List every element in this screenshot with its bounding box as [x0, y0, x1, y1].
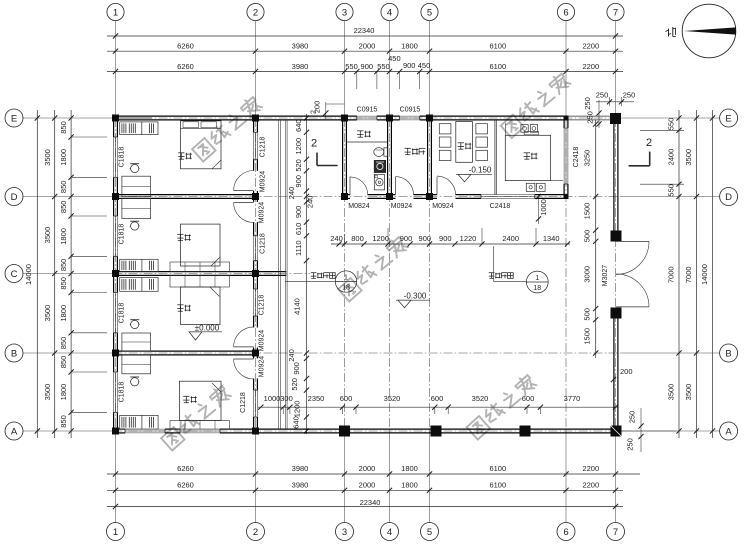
svg-text:4: 4	[387, 7, 392, 18]
dim 250/250 bottom right column 7A	[622, 408, 677, 452]
svg-text:450: 450	[418, 61, 431, 70]
axis bubble A right	[720, 422, 738, 440]
door label M3027	[602, 265, 609, 287]
door label M0924 dining bottom	[432, 203, 454, 210]
svg-text:1220: 1220	[460, 234, 477, 243]
axis bubble 7 top	[607, 3, 624, 20]
svg-text:850: 850	[59, 201, 68, 214]
window label C2418 kitchen right	[573, 147, 580, 168]
storage label 储物间	[405, 148, 426, 154]
dining table	[456, 122, 473, 163]
horizontal axis line C	[23, 273, 310, 275]
svg-text:6100: 6100	[489, 42, 506, 51]
door label M0924 room4	[259, 356, 266, 378]
svg-text:250: 250	[583, 97, 592, 110]
door label M0924 room1	[260, 171, 267, 193]
watermark 图纸之家 centre	[338, 235, 409, 301]
svg-text:C1218: C1218	[260, 137, 267, 158]
window label C1818 left wall	[119, 382, 126, 403]
left dimension line 850/1800 chain	[59, 110, 107, 438]
column 3/E	[341, 115, 348, 122]
bottom dimension line 22340	[107, 498, 623, 509]
svg-text:7000: 7000	[684, 266, 693, 283]
dining elevation -0.150	[456, 165, 492, 182]
column 7 wall lower	[611, 308, 622, 319]
svg-text:2200: 2200	[582, 481, 599, 490]
svg-text:2400: 2400	[667, 149, 676, 166]
dim 200 above E wall near axis 3	[313, 101, 345, 119]
svg-text:6: 6	[563, 7, 568, 18]
dining label 餐厅	[458, 143, 472, 149]
column 7/E	[610, 113, 621, 124]
svg-text:1: 1	[113, 527, 118, 538]
left dimension line 14000	[24, 110, 40, 438]
axis bubble 5 top	[421, 3, 438, 20]
door M0924 room2	[234, 203, 254, 223]
svg-text:M0924: M0924	[391, 203, 413, 210]
room4 desk	[122, 355, 151, 374]
walkway edge lines	[279, 120, 287, 429]
window label C1818 left wall	[119, 147, 126, 168]
column 2/C	[252, 270, 259, 277]
window label C1818 left wall	[119, 224, 126, 245]
column 2/B	[252, 350, 259, 357]
WC basin	[374, 160, 385, 172]
dining chair left 1	[439, 124, 451, 134]
svg-text:240: 240	[306, 196, 315, 209]
room4 chair	[130, 377, 140, 386]
svg-text:C1818: C1818	[119, 224, 126, 245]
steps index circle 1/18 left	[335, 271, 356, 292]
dorm wall axis C	[114, 272, 258, 276]
door label M0924 room3	[259, 330, 266, 352]
svg-text:C: C	[11, 269, 18, 280]
svg-text:900: 900	[361, 62, 374, 71]
svg-text:850: 850	[59, 356, 68, 369]
svg-text:250: 250	[586, 111, 595, 124]
wall axis D top block	[343, 195, 568, 199]
svg-text:2: 2	[311, 110, 318, 114]
window label C1818 left wall	[119, 303, 126, 324]
room2 bench row	[170, 262, 230, 272]
svg-text:600: 600	[431, 394, 444, 403]
svg-text:6100: 6100	[489, 481, 506, 490]
right dimension line 14000	[700, 110, 715, 438]
room3 chair	[130, 320, 140, 329]
kitchen sink	[526, 183, 545, 191]
svg-text:6100: 6100	[489, 464, 506, 473]
section mark 2 left	[311, 138, 338, 166]
svg-text:3: 3	[342, 7, 347, 18]
svg-text:18: 18	[342, 285, 350, 292]
svg-text:2: 2	[253, 527, 258, 538]
wall axis 3 (WC left)	[343, 118, 347, 197]
room3 headboard band	[170, 275, 230, 287]
column 5/E	[426, 115, 433, 122]
door M0924 storage	[396, 177, 414, 195]
svg-text:6260: 6260	[177, 464, 194, 473]
wall axis 5	[428, 118, 432, 197]
svg-text:240: 240	[287, 187, 296, 200]
svg-text:3500: 3500	[684, 384, 693, 401]
room3 wardrobe	[120, 278, 158, 292]
svg-text:550: 550	[345, 62, 358, 71]
column 1/B	[112, 350, 119, 357]
dining chair right 3	[476, 150, 488, 160]
svg-text:E: E	[725, 113, 731, 124]
svg-text:C2418: C2418	[490, 203, 511, 210]
svg-text:D: D	[11, 192, 18, 203]
room2 label 宿舍	[177, 234, 191, 240]
svg-text:550: 550	[667, 118, 676, 131]
top dimension line 22340	[107, 26, 623, 38]
vertical axis line 6	[565, 21, 567, 523]
inner vertical dimension chain right wall	[583, 120, 599, 358]
svg-text:1800: 1800	[401, 464, 418, 473]
svg-text:6260: 6260	[177, 62, 194, 71]
svg-text:3500: 3500	[43, 305, 52, 322]
svg-text:3770: 3770	[564, 394, 581, 403]
door label M0824	[348, 203, 370, 210]
steps index circle 1/18 right	[526, 271, 548, 293]
top dimension line subdivisions	[107, 54, 623, 89]
vertical axis line 1	[115, 21, 117, 523]
svg-text:240: 240	[287, 349, 296, 362]
column 2/D	[252, 193, 259, 200]
svg-text:A: A	[11, 426, 18, 437]
room3 label 宿舍	[177, 305, 191, 311]
svg-text:2200: 2200	[582, 42, 599, 51]
svg-text:6260: 6260	[177, 481, 194, 490]
axis bubble 7 bottom	[607, 523, 625, 541]
axis bubble 4 bottom	[381, 523, 399, 541]
svg-text:14000: 14000	[700, 264, 709, 285]
axis bubble 2 bottom	[247, 523, 265, 541]
svg-text:2400: 2400	[502, 234, 519, 243]
svg-text:3500: 3500	[667, 384, 676, 401]
axis bubble 2 top	[247, 3, 264, 20]
svg-text:900: 900	[294, 206, 303, 219]
kitchen right wall axis 6 with window C2418	[564, 116, 568, 198]
dim 250/250 top right of column 7E	[596, 91, 636, 107]
column 3/A	[339, 426, 350, 437]
svg-text:6: 6	[563, 527, 568, 538]
room1 wardrobe	[120, 122, 158, 135]
svg-text:850: 850	[59, 415, 68, 428]
svg-text:520: 520	[290, 378, 299, 391]
svg-text:22340: 22340	[360, 498, 381, 507]
axis bubble 3 top	[336, 3, 353, 20]
svg-text:2200: 2200	[582, 464, 599, 473]
svg-text:3500: 3500	[43, 227, 52, 244]
door M0924 room3	[234, 327, 254, 347]
room2 wardrobe	[120, 259, 158, 271]
svg-text:500: 500	[583, 230, 592, 243]
axis bubble 1 top	[107, 3, 124, 20]
steps label 室外台阶 right	[489, 246, 527, 281]
svg-text:D: D	[725, 192, 732, 203]
axis bubble 6 top	[557, 3, 574, 20]
window label C0915 WC	[357, 107, 378, 114]
door M0924 room1	[234, 171, 254, 191]
svg-text:850: 850	[59, 121, 68, 134]
svg-text:640: 640	[292, 416, 301, 429]
svg-text:1800: 1800	[59, 149, 68, 166]
inner horizontal dimension chain terrace	[258, 394, 618, 414]
axis bubble D left	[5, 188, 23, 206]
svg-text:M0924: M0924	[432, 203, 454, 210]
room4 wardrobe	[120, 415, 158, 429]
svg-text:900: 900	[294, 175, 303, 188]
svg-text:5: 5	[427, 7, 432, 18]
room1 chair	[130, 164, 140, 173]
svg-text:1200: 1200	[372, 234, 389, 243]
svg-text:1200: 1200	[294, 138, 303, 155]
axis bubble A left	[5, 422, 23, 440]
svg-text:1: 1	[113, 7, 118, 18]
inner vertical dimension chain at walkway	[287, 114, 315, 434]
room2 bed	[181, 224, 221, 266]
svg-text:1800: 1800	[59, 384, 68, 401]
svg-text:C1818: C1818	[119, 147, 126, 168]
column 5/D	[426, 193, 433, 200]
svg-text:640: 640	[294, 119, 303, 132]
vertical axis line 4	[389, 21, 391, 523]
dining chair right 1	[476, 124, 488, 134]
column 1/A	[112, 428, 119, 435]
svg-text:300: 300	[280, 394, 293, 403]
window label C1218 room4	[240, 392, 247, 413]
room3 elevation ±0.000	[189, 323, 222, 340]
svg-text:5: 5	[427, 527, 432, 538]
svg-text:22340: 22340	[354, 26, 375, 35]
room4 bench row	[170, 421, 230, 430]
column 3/D	[341, 193, 348, 200]
door M0924 room4	[234, 359, 254, 379]
terrace elevation -0.300	[396, 291, 430, 307]
svg-text:C1218: C1218	[259, 295, 266, 316]
svg-text:1800: 1800	[401, 42, 418, 51]
svg-text:850: 850	[59, 259, 68, 272]
svg-text:C1218: C1218	[260, 233, 267, 254]
door M3027 leaf lower	[616, 274, 649, 307]
axis bubble B right	[720, 344, 738, 362]
room3 bed	[181, 287, 221, 324]
column 2/E	[252, 115, 259, 122]
column 1/D	[112, 193, 119, 200]
svg-text:610: 610	[294, 223, 303, 236]
svg-text:C1218: C1218	[240, 392, 247, 413]
axis bubble 3 bottom	[336, 523, 354, 541]
svg-text:600: 600	[340, 394, 353, 403]
svg-text:900: 900	[403, 61, 416, 70]
door label M0924 storage bottom	[391, 203, 413, 210]
svg-text:M0924: M0924	[259, 356, 266, 378]
svg-text:C1818: C1818	[119, 382, 126, 403]
room1 bed	[181, 121, 222, 169]
svg-text:4: 4	[387, 527, 392, 538]
svg-text:3980: 3980	[292, 42, 309, 51]
svg-text:3500: 3500	[43, 149, 52, 166]
svg-text:250: 250	[623, 91, 636, 100]
svg-text:2: 2	[253, 7, 258, 18]
svg-text:2000: 2000	[359, 42, 376, 51]
svg-text:7: 7	[613, 527, 618, 538]
window label C1218 room1	[260, 137, 267, 158]
svg-text:1000: 1000	[264, 394, 281, 403]
svg-text:1000: 1000	[539, 199, 548, 216]
svg-text:3520: 3520	[384, 394, 401, 403]
svg-text:M0924: M0924	[260, 171, 267, 193]
dorm right wall axis 2	[254, 116, 258, 433]
vertical axis line 5	[429, 21, 431, 523]
room3 desk	[122, 333, 151, 351]
right dimension chain 3500/7000/3500	[684, 110, 699, 438]
bottom dimension line bays 2	[107, 481, 623, 493]
svg-text:B: B	[11, 348, 17, 359]
steps label 室外台阶 left	[285, 273, 335, 282]
axis bubble 5 bottom	[421, 523, 439, 541]
room2 chair	[130, 221, 140, 230]
wall E extension to column 7	[568, 116, 610, 120]
horizontal axis line B	[23, 352, 720, 354]
svg-text:14000: 14000	[24, 264, 33, 285]
room4 label 宿舍	[183, 396, 197, 402]
watermark 图纸之家 top-middle	[500, 72, 571, 138]
svg-text:6100: 6100	[489, 62, 506, 71]
window label C0915 storage	[400, 107, 421, 114]
svg-text:1: 1	[535, 275, 539, 282]
svg-text:A: A	[725, 426, 732, 437]
svg-text:-0.300: -0.300	[404, 291, 427, 300]
svg-text:900: 900	[400, 234, 413, 243]
horizontal axis line E	[23, 117, 720, 119]
svg-text:1800: 1800	[59, 305, 68, 322]
svg-text:250: 250	[628, 411, 637, 424]
WC label 公卫	[357, 131, 371, 137]
svg-text:900: 900	[419, 234, 432, 243]
svg-text:240: 240	[330, 234, 343, 243]
column 1/C	[112, 270, 119, 277]
kitchen counter	[505, 123, 563, 181]
svg-text:850: 850	[59, 337, 68, 350]
svg-text:M0924: M0924	[259, 330, 266, 352]
door label M0924 room2	[259, 202, 266, 224]
svg-text:850: 850	[59, 181, 68, 194]
inner horizontal dimension chain under rooms	[330, 228, 570, 247]
column A-wall mid right	[520, 426, 531, 437]
vertical axis line 3	[344, 21, 346, 523]
column 2/A	[252, 428, 259, 435]
svg-text:3000: 3000	[583, 266, 592, 283]
column 6/E	[564, 116, 569, 121]
svg-text:900: 900	[439, 234, 452, 243]
terrace bottom wall axis A	[257, 429, 618, 433]
svg-text:7: 7	[613, 7, 618, 18]
left dimension line 3500s	[43, 110, 57, 438]
svg-text:500: 500	[583, 308, 592, 321]
svg-text:2: 2	[311, 138, 317, 150]
window label C1218 room2	[260, 233, 267, 254]
axis bubble E left	[5, 109, 23, 127]
vertical axis line 2	[255, 21, 257, 523]
WC toilet	[374, 148, 388, 157]
svg-text:1500: 1500	[583, 203, 592, 220]
dim 1000 kitchen door	[536, 194, 548, 224]
svg-text:550: 550	[667, 184, 676, 197]
bottom dimension line bays 1	[107, 464, 640, 476]
left exterior wall axis 1	[114, 116, 118, 433]
wall C stub to walkway	[257, 272, 286, 276]
axis bubble 4 top	[381, 3, 398, 20]
svg-text:2350: 2350	[308, 394, 325, 403]
door M0824 WC	[350, 177, 368, 195]
kitchen-dining partition	[495, 120, 496, 195]
svg-text:1200: 1200	[293, 401, 302, 418]
dining chair left 3	[439, 150, 451, 160]
axis bubble C left	[5, 265, 23, 283]
room1 label 宿舍	[178, 153, 192, 159]
axis bubble B left	[5, 344, 23, 362]
kitchen stove	[521, 125, 539, 135]
column 4/D	[386, 193, 393, 200]
column A-wall mid left	[431, 426, 442, 437]
dorm wall axis D	[114, 195, 258, 199]
section mark 2 right	[629, 137, 652, 166]
section mark 2 small top	[311, 110, 318, 114]
column 6/D	[564, 194, 569, 199]
svg-text:3980: 3980	[292, 62, 309, 71]
svg-text:3500: 3500	[43, 384, 52, 401]
watermark 图纸之家 bottom-left	[161, 384, 232, 450]
dim 200 on right wall	[611, 367, 633, 382]
svg-text:1800: 1800	[59, 228, 68, 245]
horizontal axis line A	[23, 430, 720, 432]
axis bubble 1 bottom	[107, 523, 125, 541]
svg-text:850: 850	[59, 277, 68, 290]
svg-text:1340: 1340	[543, 234, 560, 243]
column 7/A	[611, 426, 622, 437]
svg-text:M0924: M0924	[259, 202, 266, 224]
top dimension line bays	[107, 42, 623, 54]
room2 desk	[122, 198, 151, 218]
dorm wall axis A with windows	[114, 429, 258, 433]
dining chair left 2	[439, 137, 451, 147]
svg-text:2000: 2000	[359, 464, 376, 473]
wall axis 4	[388, 118, 392, 197]
svg-text:-0.150: -0.150	[469, 165, 492, 174]
svg-text:E: E	[11, 113, 17, 124]
kitchen label 厨房	[524, 153, 538, 159]
window label C1218 room3	[259, 295, 266, 316]
dorm wall axis B	[114, 351, 258, 355]
svg-text:520: 520	[294, 159, 303, 172]
svg-text:3520: 3520	[472, 394, 489, 403]
svg-text:1800: 1800	[401, 481, 418, 490]
axis bubble 6 bottom	[557, 523, 575, 541]
svg-text:M0824: M0824	[348, 203, 370, 210]
svg-text:3980: 3980	[292, 464, 309, 473]
column 7 wall upper	[611, 231, 622, 242]
svg-text:1500: 1500	[583, 328, 592, 345]
svg-text:900: 900	[292, 362, 301, 375]
svg-text:C0915: C0915	[357, 107, 378, 114]
svg-text:C0915: C0915	[400, 107, 421, 114]
svg-text:B: B	[725, 348, 731, 359]
svg-text:3: 3	[342, 527, 347, 538]
axis bubble E right	[720, 109, 738, 127]
svg-text:±0.000: ±0.000	[195, 323, 220, 332]
